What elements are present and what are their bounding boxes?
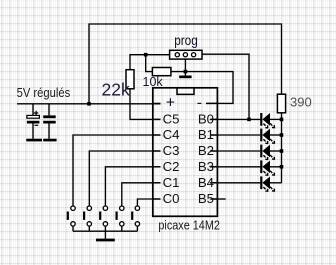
wire 5V rail: [17, 103, 161, 105]
ground bar under switches: [96, 239, 115, 242]
op-amp U1 picaxe 14M2 body: [153, 88, 218, 217]
wire LED anode bus: [281, 113, 283, 183]
wire junction down to 10k left lead: [146, 55, 153, 72]
pin stub B3: [211, 166, 219, 168]
wire switch bottom leads: [73, 226, 137, 231]
junction B0 / prog serial: [247, 118, 251, 122]
svg-text:+: +: [166, 94, 175, 111]
svg-text:C5: C5: [163, 112, 180, 127]
svg-text:B1: B1: [198, 127, 214, 142]
capacitor C1 polarized top plate: [27, 115, 40, 118]
svg-text:C3: C3: [163, 143, 180, 158]
connector prog pin 1: [175, 53, 179, 57]
wire top loop: 5V rail up, across top, down to 390: [89, 24, 282, 104]
wire C4 to switch SW1: [73, 135, 161, 206]
resistor 10k body: [152, 68, 171, 76]
pin stub minus: [206, 102, 218, 104]
junction prog wire / 10k: [144, 53, 148, 57]
wire B0 to LED1: [210, 118, 260, 120]
pin stub B2: [211, 150, 219, 152]
capacitor C1 bottom plate: [27, 121, 40, 124]
ground bar under capacitor C1: [26, 139, 42, 142]
svg-text:prog: prog: [174, 33, 198, 48]
wire LED3 anode to bus: [270, 150, 282, 152]
svg-text:390: 390: [290, 94, 312, 109]
pin stub B4: [211, 182, 219, 184]
pin stub C3: [152, 150, 161, 152]
svg-text:5V régulés: 5V régulés: [17, 85, 71, 100]
svg-text:B3: B3: [198, 159, 214, 174]
svg-text:C4: C4: [163, 127, 180, 142]
svg-text:B2: B2: [198, 143, 214, 158]
ground bar under capacitor C2: [43, 139, 56, 142]
capacitor C2 top plate: [43, 115, 56, 118]
wire B4 to LED5: [210, 182, 260, 184]
capacitor C2 bottom plate: [43, 121, 56, 124]
wire LED4 anode to bus: [270, 166, 282, 168]
svg-text:B0: B0: [198, 112, 214, 127]
wire B5 stub: [211, 198, 226, 200]
svg-text:C0: C0: [163, 191, 180, 206]
resistor 22k body: [126, 70, 134, 89]
junction 5V rail / top loop: [87, 102, 91, 106]
wire B2 to LED3: [210, 150, 260, 152]
pin stub plus: [152, 102, 161, 104]
LED D4: [260, 160, 274, 175]
connector prog pin 2: [183, 53, 187, 57]
wire C2 to switch SW3: [105, 167, 160, 206]
wire LED5 anode to bus: [270, 182, 282, 184]
connector prog header: [170, 50, 202, 59]
wire B3 to LED4: [210, 166, 260, 168]
pin stub C5: [152, 118, 161, 120]
notch on IC top: [177, 88, 194, 94]
svg-text:-: -: [197, 94, 202, 111]
wire C3 to switch SW2: [89, 151, 160, 206]
pin stub B5: [211, 198, 219, 200]
wire LED1 anode to bus: [270, 118, 282, 120]
junction bus B3: [280, 165, 284, 169]
switch SW2: [83, 206, 92, 226]
ground bar under prog: [179, 76, 191, 79]
pin stub C0: [152, 198, 161, 200]
svg-text:B5: B5: [198, 191, 214, 206]
wire capacitor C1 leads: [32, 104, 34, 139]
capacitor C1 plus mark: [34, 111, 38, 115]
wire prog right to B0: [202, 54, 249, 119]
svg-text:10k: 10k: [143, 75, 164, 89]
junction bus B0: [280, 118, 284, 122]
wire 22k bottom to C5 pin: [130, 89, 161, 120]
pin stub C4: [152, 134, 161, 136]
junction bus B2: [280, 149, 284, 153]
junction bus B1: [280, 133, 284, 137]
pin stub C1: [152, 182, 161, 184]
wire switch bus to ground: [104, 231, 106, 238]
switch SW4: [116, 206, 125, 226]
wire prog middle pin to ground: [184, 59, 186, 76]
svg-text:picaxe 14M2: picaxe 14M2: [158, 218, 220, 232]
connector prog pin 3: [192, 53, 196, 57]
LED D5: [260, 176, 274, 191]
svg-text:22k: 22k: [102, 80, 130, 100]
wire C0 to switch SW5: [137, 199, 160, 206]
pin stub B1: [211, 134, 219, 136]
junction 10k / ground: [184, 70, 188, 74]
wire LED2 anode to bus: [270, 134, 282, 136]
wire B1 to LED2: [210, 134, 260, 136]
svg-text:B4: B4: [198, 175, 214, 190]
LED D1: [260, 113, 274, 128]
pin stub B0: [211, 118, 219, 120]
pin stub C2: [152, 166, 161, 168]
wire prog left to 22k top: [130, 55, 170, 70]
capacitor C1 minus mark: [35, 124, 39, 126]
wire capacitor C2 leads: [48, 104, 50, 139]
wire minus pin to ground net: [171, 72, 233, 104]
resistor 390 body: [277, 94, 285, 113]
svg-text:C1: C1: [163, 175, 180, 190]
switch SW3: [99, 206, 108, 226]
wire C1 to switch SW4: [122, 183, 161, 206]
switch SW5: [131, 206, 139, 226]
LED D2: [260, 129, 274, 144]
LED D3: [260, 145, 274, 160]
svg-text:C2: C2: [163, 159, 180, 174]
switch SW1: [67, 206, 76, 226]
wire switch common bus: [73, 230, 137, 232]
